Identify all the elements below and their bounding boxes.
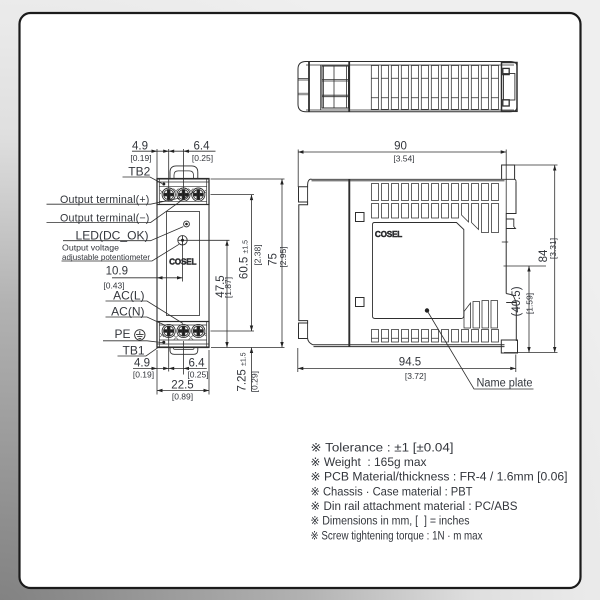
leader output terminal minus	[47, 190, 197, 223]
side view square hole lower	[356, 298, 365, 307]
TB1 marker dot	[162, 341, 165, 344]
terminal block TB2 outer	[157, 179, 209, 205]
svg-text:[0.19]: [0.19]	[130, 153, 151, 163]
arrowheads bottom dims	[152, 367, 158, 370]
svg-text:AC(N): AC(N)	[111, 304, 144, 318]
leader potentiometer	[62, 244, 180, 261]
arrowheads 47.5	[225, 240, 228, 246]
front view body	[157, 179, 209, 347]
leader AC(L)	[106, 301, 184, 324]
top view left edge ticks	[298, 79, 309, 95]
svg-text:94.5: 94.5	[399, 356, 421, 368]
terminal block TB1 outer	[157, 322, 209, 348]
TB1 inner edge lines	[157, 322, 209, 348]
arrowheads top dims	[152, 150, 158, 153]
side view back edge upper	[506, 181, 516, 293]
side view vent row 1	[372, 184, 499, 201]
top view case seam heavy line	[348, 62, 350, 112]
dim 75 line	[281, 179, 283, 348]
side view vent row 2	[372, 204, 459, 219]
top view case outline	[298, 62, 517, 112]
svg-text:COSEL: COSEL	[169, 257, 196, 266]
svg-text:※ Chassis · Case material : PB: ※ Chassis · Case material : PBT	[311, 484, 474, 498]
svg-text:[1.59]: [1.59]	[525, 293, 535, 314]
dim 90 line	[298, 151, 506, 153]
svg-text:AC(L): AC(L)	[113, 288, 144, 302]
dim 84 line	[554, 165, 556, 353]
svg-text:[2.95]: [2.95]	[278, 246, 288, 267]
side view bottom vent row	[372, 330, 499, 343]
svg-text:6.4: 6.4	[194, 140, 211, 152]
leader LED	[63, 227, 183, 241]
svg-text:TB2: TB2	[128, 165, 150, 179]
leader output terminal plus	[47, 198, 181, 204]
svg-text:[0.29]: [0.29]	[250, 371, 260, 392]
svg-text:[3.54]: [3.54]	[393, 154, 414, 164]
side view DIN latch bottom	[501, 340, 517, 353]
top view front bezel heavy line	[308, 62, 310, 112]
arrowheads 94.5	[298, 367, 304, 370]
svg-text:※ Din rail attachment material: ※ Din rail attachment material : PC/ABS	[311, 499, 518, 513]
side view slanted vents at chamfer	[462, 204, 469, 223]
dim top extension lines	[157, 149, 184, 189]
dim 94.5 line	[298, 367, 516, 369]
side view top edge	[311, 179, 516, 181]
leader TB2	[123, 177, 163, 184]
TB2 hatch	[160, 189, 206, 195]
leader PE	[103, 341, 163, 343]
svg-text:[0.25]: [0.25]	[187, 370, 208, 380]
svg-text:[0.25]: [0.25]	[192, 153, 213, 163]
arrowhead 7.25	[250, 348, 253, 354]
svg-text:PE: PE	[114, 327, 130, 341]
svg-text:※ PCB Material/thickness : FR-: ※ PCB Material/thickness : FR-4 / 1.6mm …	[311, 470, 568, 484]
name plate dot and leader	[427, 311, 534, 390]
svg-text:[3.31]: [3.31]	[548, 238, 558, 259]
arrowheads 40.5	[527, 266, 530, 272]
top view bezel inner line	[320, 65, 322, 110]
top view terminal grid cells	[322, 66, 349, 108]
top view DIN clip square bottom	[503, 100, 509, 106]
svg-text:4.9: 4.9	[132, 140, 148, 152]
top view inner edge lines	[306, 65, 514, 110]
potentiometer centerline down	[182, 245, 184, 282]
arrowheads 22.5	[157, 389, 163, 392]
leader TB1	[118, 348, 158, 356]
top DIN clip handle inner	[174, 171, 194, 179]
side view DIN hook	[506, 294, 516, 303]
top view DIN clip slider	[504, 74, 515, 101]
arrowheads 75	[280, 179, 283, 185]
svg-text:※ Tolerance : ±1 [±0.04]: ※ Tolerance : ±1 [±0.04]	[311, 440, 454, 454]
svg-text:adjustable potentiometer: adjustable potentiometer	[62, 252, 150, 262]
dim 60.5 line	[251, 195, 253, 331]
svg-text:22.5: 22.5	[171, 379, 193, 391]
svg-text:4.9: 4.9	[134, 357, 150, 369]
side view lower-right vents	[464, 303, 471, 328]
side view left profile with terminal cover tabs	[299, 179, 313, 345]
side view square hole upper	[356, 213, 365, 222]
top view terminal grid box	[322, 66, 349, 108]
svg-text:(40.5): (40.5)	[511, 286, 523, 316]
side view case seam heavy line	[348, 179, 350, 347]
dim 90 extension lines	[298, 150, 506, 214]
LED (DC_OK)	[184, 221, 190, 227]
arrowheads 84	[553, 165, 556, 171]
potentiometer extension right	[187, 239, 229, 241]
top view vent slot columns	[371, 66, 498, 110]
svg-text:[0.89]: [0.89]	[172, 392, 193, 402]
PE earth symbol	[135, 330, 145, 340]
svg-text:Name plate: Name plate	[477, 378, 533, 390]
dim 75 extension lines	[211, 179, 285, 348]
top DIN clip handle outer	[170, 166, 198, 179]
arrowheads 60.5	[250, 195, 253, 201]
dim 10.9 line	[112, 277, 183, 279]
TB2 marker dot	[162, 183, 165, 186]
bottom DIN clip tab outer	[170, 348, 198, 355]
svg-text:[1.87]: [1.87]	[223, 277, 233, 298]
side view DIN slider edge	[515, 303, 517, 342]
svg-text:LED(DC_OK): LED(DC_OK)	[76, 228, 149, 242]
TB1 screw 3	[192, 324, 205, 337]
side view DIN latch top	[502, 165, 515, 179]
svg-text:Output terminal(+): Output terminal(+)	[60, 194, 150, 206]
front view inner panel	[167, 212, 200, 316]
TB2 screw 3	[192, 188, 205, 201]
svg-text:TB1: TB1	[122, 344, 144, 358]
svg-text:6.4: 6.4	[189, 357, 206, 369]
dim 7.25 line	[251, 348, 253, 392]
arrowheads 10.9	[157, 276, 163, 279]
top view DIN clip outline	[502, 63, 518, 112]
svg-text:※ Weight : 165g max: ※ Weight : 165g max	[311, 455, 427, 469]
svg-text:90: 90	[394, 141, 407, 153]
arrowheads 90	[298, 150, 304, 153]
svg-text:※ Dimensions in mm, [ ] = inc: ※ Dimensions in mm, [ ] = inches	[311, 514, 470, 528]
svg-text:[3.72]: [3.72]	[405, 371, 426, 381]
TB1 screw 2	[177, 324, 190, 337]
svg-text:[0.19]: [0.19]	[133, 370, 154, 380]
TB2 screw 1	[162, 188, 175, 201]
dim 40.5 extension line	[504, 265, 547, 267]
top view DIN clip square top	[503, 68, 509, 74]
dim 94.5 extension lines	[298, 348, 516, 372]
TB2 inner edge lines	[157, 179, 209, 205]
TB1 hatch	[160, 333, 206, 340]
dim bottom extension lines	[157, 336, 209, 395]
dim 60.5 extension lines	[211, 195, 255, 331]
dim 4.9/6.4 bottom line	[133, 367, 207, 369]
notes block	[311, 440, 568, 542]
dim 4.9/6.4 top line	[132, 150, 216, 152]
svg-text:Output terminal(−): Output terminal(−)	[60, 212, 150, 224]
dim 84 extension lines	[502, 165, 558, 353]
potentiometer	[178, 236, 187, 245]
dim 22.5 line	[157, 390, 209, 392]
svg-text:※ Screw tightening torque : 1N: ※ Screw tightening torque : 1N · m max	[311, 528, 483, 542]
leader AC(N)	[106, 317, 166, 326]
svg-text:[2.38]: [2.38]	[253, 244, 263, 265]
name plate outline	[373, 223, 464, 319]
TB2 screw 2	[177, 188, 190, 201]
side view DIN jaw tooth	[506, 219, 515, 229]
bottom DIN clip tab inner	[174, 348, 195, 350]
dim 40.5 line	[528, 266, 530, 353]
TB1 screw 1	[162, 324, 175, 337]
dim 47.5 line	[226, 240, 228, 347]
svg-text:COSEL: COSEL	[375, 230, 402, 239]
side view DIN slider top tick	[502, 241, 508, 243]
side view bottom edge	[313, 345, 505, 347]
svg-text:10.9: 10.9	[106, 265, 128, 277]
